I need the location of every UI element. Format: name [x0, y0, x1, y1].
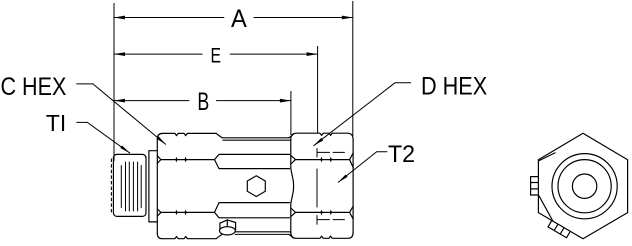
- E right extension line: [317, 46, 319, 133]
- C hex top edge with chamfer notches: [157, 133, 216, 139]
- clip edge lower: [538, 195, 553, 222]
- chamfer diamonds on D hex corner lines: [320, 157, 332, 215]
- T2 leader: [338, 152, 387, 183]
- arrowheads: [114, 16, 353, 183]
- C HEX leader: [76, 84, 166, 145]
- middle-to-nut chamfer bottom: [289, 234, 294, 238]
- bleed plug ellipse: [220, 227, 236, 235]
- dimension and leader graphics: [76, 1, 411, 183]
- middle section bottom silhouette double line: [235, 232, 290, 235]
- bleed plug hex cap: [220, 220, 236, 230]
- end view hexagon: [538, 133, 627, 239]
- svg-text:TI: TI: [46, 110, 66, 136]
- left lockwire tab: [531, 177, 539, 195]
- nut back lower corner V: [291, 208, 296, 217]
- T2 leader arrowhead: [338, 175, 348, 183]
- middle-to-nut chamfer top: [289, 134, 294, 138]
- D hex (nut) top edge with notches: [291, 133, 353, 140]
- svg-text:B: B: [197, 89, 209, 116]
- lower-left lockwire tab: [548, 220, 570, 237]
- male thread body T1: [113, 154, 146, 216]
- center wrench hexagon: [247, 176, 265, 197]
- end view: [531, 133, 628, 239]
- A arrows: [114, 16, 125, 20]
- C hex left edge: [156, 139, 158, 233]
- svg-text:T2: T2: [388, 141, 415, 168]
- TI leader: [76, 122, 130, 153]
- D hex right end chamfer Vs: [350, 153, 354, 168]
- chamfer diamonds on C hex corner lines: [175, 157, 186, 215]
- dimension line B: [114, 100, 291, 102]
- left extension line: [113, 3, 115, 161]
- bore circle: [572, 174, 596, 198]
- TI leader arrowhead: [120, 146, 130, 154]
- nut back upper corner V: [291, 155, 296, 164]
- B arrows: [114, 99, 125, 103]
- C HEX leader arrowhead: [157, 136, 166, 144]
- svg-text:A: A: [231, 6, 247, 33]
- svg-text:D HEX: D HEX: [421, 74, 488, 101]
- D HEX leader: [314, 83, 412, 146]
- thread crest dashed line (left end): [110, 159, 112, 214]
- C hex lower corner line: [157, 209, 214, 216]
- C hex bottom edge with chamfer notches: [157, 233, 216, 239]
- C hex upper corner line: [157, 156, 214, 163]
- outer circle: [552, 154, 617, 219]
- internal thread hidden lines (dashed): [317, 148, 345, 224]
- collar behind hex: [149, 151, 157, 222]
- dimension line E: [114, 53, 318, 55]
- D HEX leader arrowhead: [314, 138, 324, 146]
- svg-text:C HEX: C HEX: [1, 73, 67, 101]
- svg-text:E: E: [211, 43, 222, 67]
- nut back face line: [291, 140, 294, 233]
- lower sleeve band: [215, 203, 290, 218]
- thread lines: [121, 162, 141, 211]
- B right extension line: [290, 91, 292, 135]
- D hex upper corner line: [296, 159, 350, 161]
- A right extension line: [352, 1, 354, 136]
- upper sleeve band: [215, 154, 290, 168]
- D hex lower corner line: [296, 211, 350, 213]
- C hex right chamfer to middle section (bottom): [216, 234, 222, 239]
- dimension line A: [114, 17, 353, 19]
- middle section top silhouette double line: [222, 138, 291, 140]
- chamfer circle: [558, 160, 611, 213]
- C hex right chamfer to middle section (top): [216, 133, 222, 138]
- nut right edge: [352, 140, 354, 233]
- D hex (nut) bottom edge with notches: [291, 232, 353, 238]
- clip edge upper: [539, 153, 556, 161]
- E arrows: [114, 52, 125, 56]
